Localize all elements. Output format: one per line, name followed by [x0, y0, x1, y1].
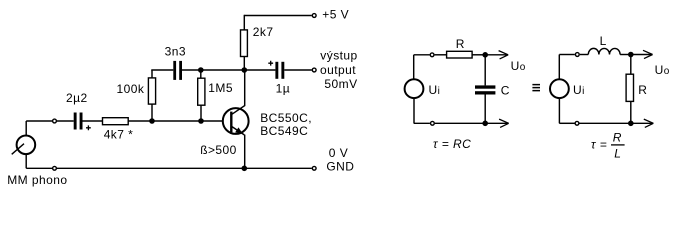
svg-text:3n3: 3n3 — [165, 45, 186, 59]
transistor Q1 emitter lead — [232, 127, 245, 135]
terminal output — [312, 68, 316, 72]
wire base — [201, 120, 231, 122]
wire source bottom — [25, 154, 27, 168]
wire RC output top arrow shaft — [485, 54, 507, 56]
svg-text:Uo: Uo — [511, 59, 526, 73]
inductor L — [588, 48, 620, 54]
terminal RC top — [430, 53, 434, 57]
terminal ground left — [53, 166, 57, 170]
transistor Q1 BC550C circle — [223, 108, 249, 134]
svg-text:2µ2: 2µ2 — [66, 91, 88, 105]
source G1 MM phono circle — [17, 136, 36, 155]
terminal RL top — [575, 53, 579, 57]
svg-text:τ =: τ = — [591, 138, 607, 152]
svg-text:Ui: Ui — [573, 83, 585, 97]
svg-text:0 V: 0 V — [329, 146, 348, 160]
wire RC top left — [414, 54, 430, 56]
wire 3n3 left — [152, 68, 173, 71]
svg-text:BC549C: BC549C — [260, 124, 308, 138]
transistor Q1 base bar — [230, 112, 232, 133]
wire RC right rail bottom — [484, 95, 486, 124]
wire RC terminal to R — [435, 54, 447, 56]
wire 4k7 to node — [128, 120, 152, 122]
capacitor C1 2u2 — [74, 113, 83, 130]
svg-text:1M5: 1M5 — [208, 81, 233, 95]
wire L to node — [620, 54, 631, 56]
wire RL top left — [559, 54, 575, 56]
wire RC bottom arrow shaft — [485, 122, 508, 124]
resistor R — [447, 51, 473, 58]
resistor R2 100k — [148, 78, 155, 104]
svg-text:R: R — [456, 37, 465, 51]
arrow RC top — [499, 51, 509, 59]
wire ground rail — [57, 167, 312, 169]
label vystup output 50mV — [320, 49, 358, 92]
svg-text:1µ: 1µ — [276, 82, 291, 96]
source Ui RL — [550, 79, 569, 98]
svg-text:output: output — [320, 63, 356, 77]
node RC output top — [482, 52, 488, 58]
node emitter ground junction — [242, 166, 248, 172]
wire node to collector node — [201, 69, 245, 71]
wire 100k bottom — [151, 104, 153, 121]
terminal input — [53, 119, 57, 123]
wire RL top arrow shaft — [631, 54, 652, 56]
wire ground rail left — [26, 167, 52, 169]
svg-text:τ = RC: τ = RC — [433, 137, 471, 151]
wire RL bottom — [580, 122, 631, 124]
capacitor C2 3n3 — [173, 61, 182, 80]
wire 1u to output terminal — [284, 69, 312, 71]
svg-text:ß>500: ß>500 — [200, 143, 237, 157]
svg-text:C: C — [501, 84, 510, 98]
wire RL right rail top — [630, 55, 632, 75]
wire RL left rail top — [558, 55, 560, 80]
svg-text:R: R — [638, 83, 647, 97]
svg-text:MM phono: MM phono — [7, 173, 67, 187]
node RL output bottom — [628, 121, 634, 127]
wire RC left rail top — [413, 55, 415, 80]
wire 2u2 to 4k7 — [83, 120, 103, 122]
arrow RC bottom — [499, 119, 509, 127]
capacitor C — [475, 85, 495, 94]
wire node to node — [152, 120, 201, 122]
svg-text:2k7: 2k7 — [253, 25, 274, 39]
svg-text:R: R — [613, 131, 622, 145]
svg-text:50mV: 50mV — [324, 77, 357, 91]
source G1 stylus line — [12, 144, 24, 155]
equivalence sign — [532, 85, 540, 91]
wire RL right rail bottom — [630, 101, 632, 123]
svg-text:L: L — [614, 147, 621, 161]
wire 3n3 right — [182, 69, 201, 71]
node RC output bottom — [482, 121, 488, 127]
terminal RC bottom — [431, 121, 435, 125]
capacitor C1 polarity plus — [86, 125, 91, 130]
transistor Q1 emitter arrow — [235, 127, 243, 133]
node 100k junction — [149, 118, 155, 124]
resistor R1 4k7 — [103, 118, 129, 125]
transistor Q1 collector lead — [232, 70, 245, 114]
wire source top — [25, 121, 27, 136]
svg-text:+5 V: +5 V — [322, 7, 349, 21]
wire RL terminal to L — [580, 54, 589, 56]
svg-text:100k: 100k — [116, 82, 144, 96]
wire RL bottom arrow shaft — [631, 122, 653, 124]
fraction bar — [611, 144, 625, 146]
node 1M5 junction — [198, 118, 204, 124]
source Ui RC — [405, 79, 424, 98]
wire emitter down — [244, 135, 246, 169]
wire 2k7 bottom to collector node — [243, 57, 245, 71]
svg-text:BC550C,: BC550C, — [260, 111, 312, 125]
wire R to node — [472, 54, 485, 56]
terminal RL bottom — [575, 121, 579, 125]
wire 2k7 top — [243, 15, 245, 30]
resistor R3 1M5 — [198, 78, 205, 105]
node collector junction — [242, 67, 248, 73]
resistor R RL — [626, 74, 633, 101]
capacitor C3 1u polarity plus — [268, 61, 273, 66]
wire RC left rail bottom — [413, 98, 415, 123]
node RL output top — [628, 52, 634, 58]
arrow RL top — [643, 50, 653, 58]
terminal +5V — [312, 14, 316, 18]
wire input from source corner — [26, 120, 52, 122]
svg-text:Uo: Uo — [655, 63, 670, 77]
svg-text:4k7 *: 4k7 * — [104, 128, 134, 142]
wire collector node to 1u cap — [244, 69, 275, 71]
node base-divider junction — [198, 67, 204, 73]
svg-text:výstup: výstup — [320, 49, 357, 63]
wire terminal to 2u2 — [57, 120, 74, 122]
capacitor C3 1u — [275, 62, 284, 79]
svg-text:Ui: Ui — [429, 83, 441, 97]
wire RL bottom left — [559, 122, 574, 124]
svg-text:GND: GND — [326, 160, 354, 174]
terminal ground right — [312, 166, 316, 170]
wire 1M5 bottom — [200, 105, 202, 121]
resistor R2 100k wires — [151, 70, 153, 78]
svg-text:L: L — [600, 34, 607, 48]
wire RC bottom left — [414, 122, 430, 124]
wire +5V top rail — [244, 15, 311, 17]
resistor R4 2k7 — [241, 30, 248, 57]
wire RC right rail top — [484, 55, 486, 86]
arrow RL bottom — [644, 119, 654, 127]
resistor R3 1M5 wires — [200, 70, 202, 78]
wire RC bottom — [435, 122, 485, 124]
wire RL left rail bottom — [558, 98, 560, 123]
